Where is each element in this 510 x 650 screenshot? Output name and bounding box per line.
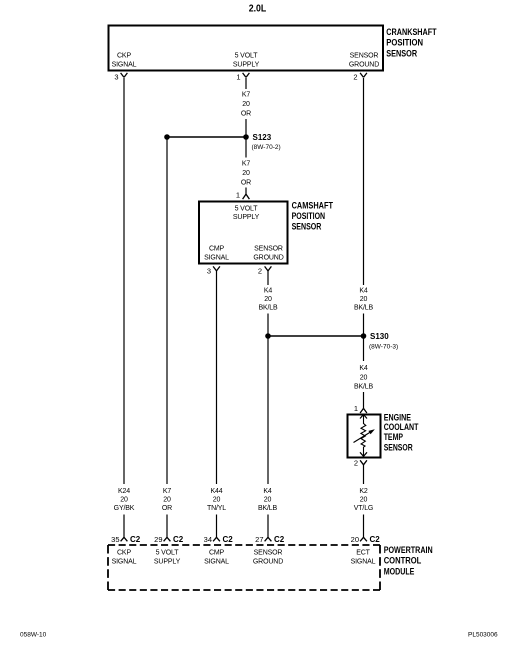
svg-text:20: 20 — [163, 497, 171, 504]
svg-text:K4: K4 — [263, 488, 272, 495]
svg-text:2.0L: 2.0L — [249, 3, 267, 15]
PCM pin 27 connector C2 — [255, 535, 285, 544]
wire 5V branch: S123 left end down to label — [166, 137, 168, 484]
svg-text:2: 2 — [354, 459, 358, 468]
svg-text:CKP: CKP — [117, 53, 131, 60]
splice S123 junction dot — [243, 134, 249, 140]
svg-text:5 VOLT: 5 VOLT — [235, 53, 259, 60]
svg-text:C2: C2 — [274, 535, 285, 544]
svg-text:5 VOLT: 5 VOLT — [156, 550, 180, 557]
wire 5V branch: label down to PCM pin 29 — [166, 515, 168, 538]
wire label K4 20 BK/LB (cam ground upper) — [258, 288, 278, 312]
svg-text:S123: S123 — [253, 133, 272, 142]
pin 2 connector SENSOR GROUND (camshaft) — [258, 266, 272, 275]
svg-text:(8W-70-2): (8W-70-2) — [252, 144, 281, 151]
wire cam sensor ground: pin 2 down to label — [267, 271, 269, 285]
camshaft position sensor box — [199, 202, 288, 264]
svg-text:SENSOR: SENSOR — [384, 443, 413, 454]
PCM terminal label CMP SIGNAL — [204, 550, 229, 566]
svg-text:K4: K4 — [264, 288, 273, 295]
svg-text:SUPPLY: SUPPLY — [154, 559, 181, 566]
svg-text:20: 20 — [264, 497, 272, 504]
svg-text:1: 1 — [236, 191, 240, 200]
crankshaft position sensor box — [109, 26, 384, 71]
svg-text:K7: K7 — [242, 92, 251, 99]
powertrain control module dashed box — [108, 545, 380, 590]
engine coolant temp sensor box — [348, 415, 381, 458]
svg-text:20: 20 — [242, 101, 250, 108]
svg-text:SENSOR: SENSOR — [292, 221, 322, 232]
wire CKP signal: crank pin 3 down to label — [123, 78, 125, 484]
svg-text:CKP: CKP — [117, 550, 131, 557]
title 2.0L — [249, 3, 267, 15]
PCM terminal label CKP SIGNAL — [112, 550, 137, 566]
svg-text:3: 3 — [207, 267, 211, 276]
PCM terminal label SENSOR GROUND — [253, 550, 283, 566]
svg-text:35: 35 — [111, 535, 119, 544]
pin 1 connector 5 VOLT SUPPLY (camshaft, fork opens down) — [236, 191, 250, 200]
wire CMP signal: cam pin 3 down to label — [216, 271, 218, 484]
svg-text:1: 1 — [236, 73, 240, 82]
wire label K4 20 BK/LB (crank ground) — [354, 288, 374, 312]
pin 2 connector ECT sensor — [354, 459, 367, 468]
pin 3 connector CKP SIGNAL — [114, 73, 127, 82]
PCM pin 35 connector C2 — [111, 535, 141, 544]
svg-text:20: 20 — [360, 296, 368, 303]
svg-text:OR: OR — [241, 111, 251, 118]
label S123 (8W-70-2) — [252, 133, 281, 151]
wire crank sensor ground: pin 2 down to label — [363, 78, 365, 285]
wire crank sensor ground: label down to splice S130 — [363, 314, 365, 337]
svg-text:K7: K7 — [163, 488, 172, 495]
svg-text:29: 29 — [154, 535, 162, 544]
svg-text:PL503006: PL503006 — [468, 632, 498, 639]
svg-text:POSITION: POSITION — [292, 211, 326, 222]
svg-text:SENSOR: SENSOR — [350, 53, 379, 60]
wire label K24 20 GY/BK — [114, 488, 135, 512]
svg-text:SIGNAL: SIGNAL — [351, 559, 376, 566]
svg-text:GROUND: GROUND — [253, 255, 283, 262]
svg-text:K4: K4 — [359, 365, 368, 372]
wire label K4 20 BK/LB (bottom) — [258, 488, 278, 512]
wire ECT supply: label down to ECT pin 1 — [363, 392, 365, 408]
svg-text:BK/LB: BK/LB — [258, 305, 278, 312]
label ENGINE COOLANT TEMP SENSOR — [384, 413, 419, 454]
splice S130 horizontal wire — [268, 335, 364, 337]
svg-text:SIGNAL: SIGNAL — [112, 62, 137, 69]
svg-text:C2: C2 — [370, 535, 381, 544]
wire ECT signal: pin 2 down to label — [363, 465, 365, 484]
sheet code PL503006 — [468, 632, 498, 639]
svg-text:K7: K7 — [242, 161, 251, 168]
svg-text:ECT: ECT — [356, 550, 370, 557]
svg-text:3: 3 — [114, 73, 118, 82]
svg-text:SENSOR: SENSOR — [386, 49, 417, 60]
pin 3 connector CMP SIGNAL — [207, 266, 220, 275]
svg-text:BK/LB: BK/LB — [258, 505, 278, 512]
pin 2 connector SENSOR GROUND (crankshaft) — [353, 73, 367, 82]
svg-text:CMP: CMP — [209, 246, 225, 253]
svg-text:POSITION: POSITION — [386, 38, 423, 49]
wire 5V supply: S123 down to label — [245, 137, 247, 158]
svg-text:SENSOR: SENSOR — [254, 246, 283, 253]
splice S130 left junction dot — [265, 333, 271, 339]
wire cam sensor ground: label down to splice S130 — [267, 314, 269, 337]
PCM pin 34 connector C2 — [204, 535, 234, 544]
thermistor symbol inside ECT sensor — [354, 415, 375, 457]
svg-text:058W-10: 058W-10 — [20, 632, 47, 639]
svg-text:(8W-70-3): (8W-70-3) — [369, 344, 398, 351]
wire CKP signal: label down to PCM pin 35 — [123, 515, 125, 538]
svg-text:20: 20 — [242, 170, 250, 177]
svg-text:OR: OR — [241, 180, 251, 187]
wire label K2 20 VT/LG — [354, 488, 373, 512]
svg-text:TEMP: TEMP — [384, 432, 404, 443]
svg-text:C2: C2 — [173, 535, 184, 544]
svg-text:SIGNAL: SIGNAL — [204, 559, 229, 566]
svg-text:20: 20 — [213, 497, 221, 504]
svg-text:20: 20 — [264, 296, 272, 303]
svg-text:C2: C2 — [130, 535, 141, 544]
label CAMSHAFT POSITION SENSOR — [292, 200, 334, 232]
wire label K7 20 OR (upper) — [241, 92, 251, 118]
svg-text:CONTROL: CONTROL — [384, 556, 422, 567]
svg-text:S130: S130 — [370, 332, 389, 341]
wire CMP signal: label down to PCM pin 34 — [216, 515, 218, 538]
svg-text:SENSOR: SENSOR — [254, 550, 283, 557]
svg-text:GROUND: GROUND — [253, 559, 283, 566]
svg-text:C2: C2 — [223, 535, 234, 544]
splice S130 right junction dot — [361, 333, 367, 339]
label POWERTRAIN CONTROL MODULE — [384, 545, 433, 577]
wire label K44 20 TN/YL — [207, 488, 226, 512]
wire label K4 20 BK/LB (to ECT) — [354, 365, 374, 391]
splice S123 left end dot — [164, 134, 170, 140]
svg-text:POWERTRAIN: POWERTRAIN — [384, 545, 433, 556]
wire label K7 20 OR (bottom branch) — [162, 488, 172, 512]
svg-text:K4: K4 — [359, 288, 368, 295]
wire 5V supply: crank pin 1 down to label — [245, 78, 247, 89]
PCM pin 20 connector C2 — [351, 535, 381, 544]
svg-text:VT/LG: VT/LG — [354, 505, 373, 512]
svg-text:CAMSHAFT: CAMSHAFT — [292, 200, 334, 211]
svg-text:SUPPLY: SUPPLY — [233, 62, 260, 69]
pin 1 connector ECT sensor (fork opens down) — [354, 404, 367, 413]
wire label K7 20 OR (middle) — [241, 161, 251, 187]
pin 1 connector 5 VOLT SUPPLY (crankshaft) — [236, 73, 249, 82]
sheet code 058W-10 — [20, 632, 47, 639]
svg-text:2: 2 — [353, 73, 357, 82]
label CRANKSHAFT POSITION SENSOR — [386, 27, 436, 60]
wire ECT supply: S130 down to label — [363, 336, 365, 361]
wire sensor ground branch: S130 left down to label — [267, 336, 269, 484]
svg-text:K2: K2 — [359, 488, 368, 495]
PCM terminal label 5 VOLT SUPPLY — [154, 550, 181, 566]
svg-text:SIGNAL: SIGNAL — [204, 255, 229, 262]
PCM pin 29 connector C2 — [154, 535, 184, 544]
svg-text:BK/LB: BK/LB — [354, 305, 374, 312]
wire 5V supply: label down to camshaft pin 1 — [245, 188, 247, 195]
svg-text:CMP: CMP — [209, 550, 225, 557]
svg-text:K44: K44 — [210, 488, 222, 495]
svg-text:TN/YL: TN/YL — [207, 505, 226, 512]
svg-text:20: 20 — [120, 497, 128, 504]
svg-text:MODULE: MODULE — [384, 566, 415, 577]
svg-text:SIGNAL: SIGNAL — [112, 559, 137, 566]
svg-text:K24: K24 — [118, 488, 130, 495]
svg-text:SUPPLY: SUPPLY — [233, 214, 260, 221]
svg-text:OR: OR — [162, 505, 172, 512]
splice S123 horizontal wire — [167, 136, 246, 138]
svg-text:27: 27 — [255, 535, 263, 544]
svg-text:CRANKSHAFT: CRANKSHAFT — [386, 27, 436, 38]
wire 5V supply: label down to splice S123 — [245, 119, 247, 137]
svg-text:20: 20 — [360, 375, 368, 382]
svg-text:BK/LB: BK/LB — [354, 384, 374, 391]
svg-text:20: 20 — [351, 535, 359, 544]
PCM terminal label ECT SIGNAL — [351, 550, 376, 566]
svg-text:GROUND: GROUND — [349, 62, 379, 69]
svg-text:34: 34 — [204, 535, 212, 544]
label S130 (8W-70-3) — [369, 332, 398, 351]
svg-text:20: 20 — [360, 497, 368, 504]
svg-text:2: 2 — [258, 267, 262, 276]
svg-text:5 VOLT: 5 VOLT — [235, 206, 259, 213]
svg-text:GY/BK: GY/BK — [114, 505, 135, 512]
wire sensor ground branch: label down to PCM pin 27 — [267, 515, 269, 538]
svg-text:1: 1 — [354, 404, 358, 413]
wire ECT signal: label down to PCM pin 20 — [363, 515, 365, 538]
